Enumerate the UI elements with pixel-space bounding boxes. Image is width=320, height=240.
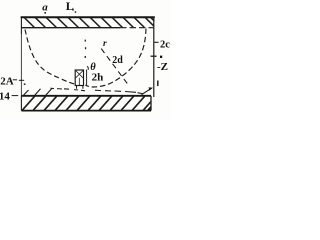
svg-text:14: 14 [0,90,10,102]
bottom wall top edge [21,95,151,97]
arrow into axis [142,89,150,94]
svg-text:-Z: -Z [157,61,168,73]
top wall bottom edge [21,27,120,29]
svg-text:L: L [66,0,74,13]
small dot right of axis [160,56,162,58]
svg-text:2A: 2A [0,75,14,87]
dotted vertical center line [85,40,86,42]
box inner diagonals [76,71,83,85]
svg-text:a: a [42,1,48,13]
bottom wall bottom edge [21,110,151,112]
bottom wall hatching [22,96,151,110]
top wall top edge [21,16,155,18]
source box [75,70,83,86]
svg-text:r: r [103,39,107,49]
right vertical axis line [153,17,155,97]
hatch overshoot strokes above bottom wall [24,88,53,95]
bottom wall corner triangle [147,105,151,110]
dashed cavity curve right branch [85,29,146,88]
bottom wall right edge [150,96,152,111]
tick on axis [151,55,157,57]
dashed radial line r [101,49,128,85]
short vertical right of box [86,70,88,86]
tick for 2c [154,41,158,43]
top wall hatching [24,17,154,27]
svg-text:2h: 2h [92,72,104,84]
left boundary wall line [20,17,22,34]
dashed cavity curve left branch [25,30,75,85]
svg-text:2c: 2c [160,40,170,51]
top wall bottom edge dashed right part [120,27,154,29]
stray scan mark right margin [157,81,159,87]
label theta with angle tick [87,66,88,70]
lower dashed baseline with arrow to axis [51,88,143,93]
svg-text:2d: 2d [112,55,123,66]
box legs [77,86,83,89]
